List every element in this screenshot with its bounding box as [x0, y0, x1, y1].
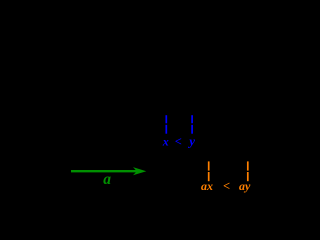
- svg-text:ay: ay: [239, 179, 251, 193]
- wire: blue dashed marker at x (upper segment): [165, 115, 167, 123]
- node: lower number line (black, invisible on black background): [8, 170, 292, 172]
- wire: blue dashed marker at x (lower segment): [165, 125, 167, 134]
- node: upper number line (black, invisible on black background): [8, 123, 292, 125]
- svg-text:<: <: [175, 134, 182, 148]
- wire: orange dashed marker at ax (upper segment): [208, 161, 210, 170]
- svg-text:<: <: [223, 179, 230, 193]
- wire: blue dashed marker at y (upper segment): [191, 115, 193, 123]
- node: green arrowhead: [133, 167, 146, 175]
- wire: orange dashed marker at ay (lower segment): [247, 172, 249, 181]
- wire: green vector arrow shaft (scale factor a): [71, 170, 139, 172]
- wire: orange dashed marker at ay (upper segment): [247, 161, 249, 170]
- node: tick 0 on lower line (black, invisible): [70, 167, 72, 175]
- wire: orange dashed marker at ax (lower segment): [208, 172, 210, 181]
- svg-text:x: x: [162, 134, 169, 148]
- wire: blue dashed marker at y (lower segment): [191, 125, 193, 134]
- svg-text:y: y: [187, 133, 195, 148]
- svg-text:a: a: [103, 171, 111, 188]
- svg-text:ax: ax: [201, 179, 213, 193]
- node: tick 1 on lower line (black, invisible): [121, 167, 123, 175]
